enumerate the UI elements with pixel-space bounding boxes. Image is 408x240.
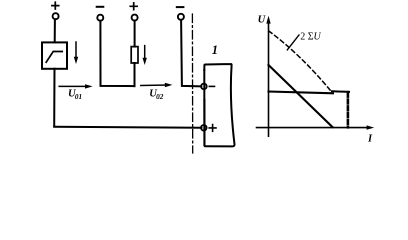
wire resistor R down	[134, 63, 136, 86]
bottom bus wire to battery + terminal	[54, 126, 201, 129]
svg-text:2 ΣU: 2 ΣU	[300, 32, 321, 43]
terminal T4 (-)	[177, 7, 184, 20]
label 2 sigma U	[300, 32, 321, 43]
dashed line 2 sigma U	[269, 31, 331, 90]
current arrow at R	[143, 46, 147, 65]
wire T2 down and right to resistor branch	[100, 21, 134, 86]
label 1 (cell)	[212, 43, 218, 57]
wire T3 to resistor R	[134, 21, 136, 47]
left edge of cell through terminals	[203, 70, 205, 145]
wire T1 to box U1	[54, 19, 56, 42]
voltage arrow U02	[141, 83, 173, 87]
wire box U1 down to bottom bus	[53, 69, 55, 126]
dotted current limit vertical	[347, 93, 350, 128]
svg-text:02: 02	[156, 93, 164, 101]
label U01	[68, 89, 82, 102]
boundary chain line (dash-dot)	[191, 14, 193, 153]
svg-text:01: 01	[75, 93, 82, 101]
terminal T1 (+)	[52, 2, 59, 19]
solid discharge line (diagonal)	[269, 65, 333, 127]
svg-text:1: 1	[212, 43, 218, 57]
battery terminal node (+)	[201, 125, 207, 131]
battery terminal node (-)	[201, 84, 207, 90]
graph U axis	[266, 16, 270, 136]
dotted horizontal continuation	[332, 90, 349, 93]
resistor R	[131, 47, 138, 63]
label I axis	[367, 133, 373, 144]
battery cell outline (component 1)	[204, 64, 234, 146]
plus sign at cell	[209, 125, 216, 132]
solid voltage limit line (horizontal)	[269, 92, 334, 94]
terminal T2 (-)	[97, 7, 104, 21]
terminal T3 (+)	[130, 3, 137, 21]
minus sign at cell	[209, 85, 214, 87]
graph I axis	[257, 125, 375, 129]
label U axis	[258, 15, 267, 26]
label U02	[149, 89, 163, 102]
wire T4 down and right to battery - terminal	[181, 20, 201, 86]
current arrow at U1	[74, 42, 78, 64]
label pointer line	[287, 35, 299, 50]
converter U1 (charger with limiting characteristic)	[42, 42, 67, 68]
voltage arrow U01	[59, 84, 92, 88]
